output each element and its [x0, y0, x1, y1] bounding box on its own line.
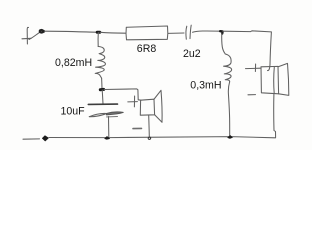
- woofer plus mark: [128, 96, 138, 107]
- svg-text:2u2: 2u2: [183, 48, 201, 60]
- tweeter LS2 wire curl into magnet: [268, 65, 271, 71]
- capacitor C2 10uF bottom plate (curved): [89, 112, 123, 117]
- wire J2 to top-right corner: [223, 31, 271, 32]
- svg-text:0,82mH: 0,82mH: [55, 57, 92, 69]
- input terminal - (bottom-left): [23, 136, 48, 141]
- svg-text:6R8: 6R8: [137, 43, 157, 55]
- wire capacitor to J2: [193, 31, 221, 32]
- speaker LS2 cone: [278, 63, 289, 95]
- speaker LS1 cone: [154, 90, 162, 122]
- inductor L1 0,82mH coil: [95, 47, 105, 79]
- node J2 (junction top wire / 0,3mH): [220, 31, 222, 33]
- input terminal + (top-left): [22, 27, 44, 44]
- svg-text:10uF: 10uF: [61, 105, 86, 117]
- svg-text:0,3mH: 0,3mH: [190, 79, 221, 91]
- inductor L1 lead to node: [101, 78, 103, 88]
- capacitor C2 lead to bottom wire: [108, 117, 110, 137]
- tweeter LS2 plus lead: [246, 67, 261, 69]
- wire bottom (right to left): [49, 137, 275, 138]
- woofer lead to bottom wire: [148, 115, 151, 137]
- node J1 (junction top wire / 0,82mH): [97, 31, 100, 34]
- node J3 (L1 / 10uF / woofer+): [100, 88, 103, 91]
- woofer minus mark: [133, 127, 142, 129]
- wire J3 to woofer plus corner: [104, 89, 141, 100]
- tweeter minus mark: [248, 94, 256, 96]
- inductor L1 lead from J1: [97, 32, 99, 46]
- speaker LS2 magnet retrace stroke: [273, 67, 276, 94]
- node J6 (L2 / bottom wire): [228, 136, 233, 139]
- wire tweeter to bottom-right corner: [274, 94, 276, 137]
- inductor L2 0,3mH coil: [224, 54, 232, 82]
- capacitor C2 10uF top plate: [88, 103, 117, 105]
- speaker LS2 magnet box: [261, 66, 279, 93]
- speaker LS1 magnet box: [140, 99, 154, 115]
- wire J1 to resistor: [100, 31, 125, 34]
- inductor L2 lead to bottom wire: [228, 82, 229, 136]
- wire right vertical (corner down to tweeter): [270, 32, 271, 65]
- capacitor C2 feed wire from J3: [101, 90, 104, 104]
- node J5 (woofer / bottom wire): [148, 137, 151, 139]
- wire resistor to capacitor: [168, 32, 184, 34]
- wire top-left segment: [45, 31, 98, 32]
- inductor L2 lead from J2: [222, 33, 226, 54]
- resistor R1 6R8: [126, 26, 168, 40]
- capacitor C1 2u2: [186, 25, 191, 39]
- tweeter LS2 plus tick: [254, 64, 256, 72]
- node J4 (cap / bottom wire): [105, 137, 110, 140]
